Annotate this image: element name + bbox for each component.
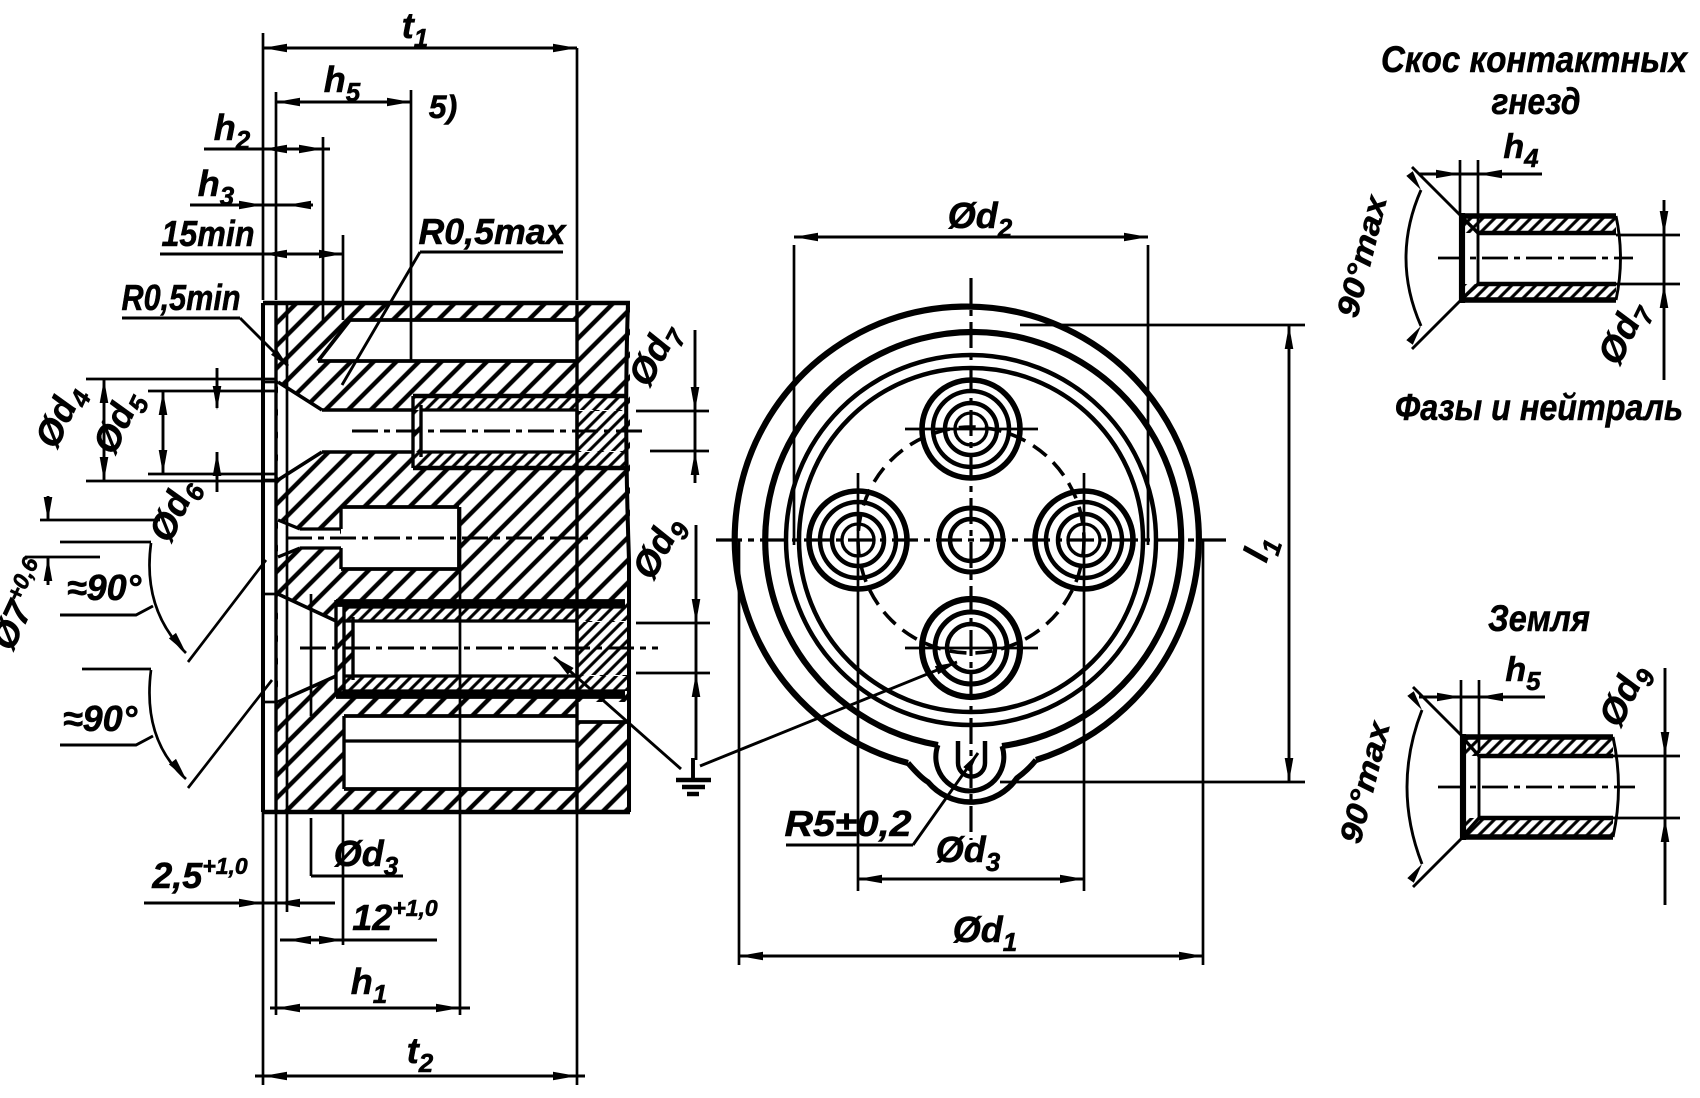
svg-text:гнезд: гнезд — [1492, 81, 1581, 122]
front view: top phase contact — [922, 380, 1020, 478]
label R0,5max with leader — [342, 211, 567, 385]
front view: bottom ground contact — [922, 599, 1020, 697]
section view: front flange white gap — [264, 303, 276, 812]
detail 2: tube axis (dash-dot) — [1438, 786, 1635, 789]
front view: recess circle Ød2 — [786, 355, 1156, 725]
ground symbol with leaders — [554, 657, 957, 794]
section view: upper contact axis (dash-dot) — [352, 430, 648, 433]
dimension t2 — [255, 812, 585, 1085]
section view: ground contact axis (dash-dot) — [300, 647, 658, 650]
label R0,5min with leader — [122, 277, 289, 366]
dimension h1 — [270, 507, 470, 1015]
detail 1: tube axis (dash-dot) — [1438, 257, 1633, 260]
section view: ground funnel + bore (white) — [278, 594, 336, 702]
section view: upper cavity (white) — [318, 321, 577, 361]
svg-text:5): 5) — [429, 89, 457, 125]
dimension h2 — [204, 107, 330, 320]
section view: center hole funnel (white) — [278, 520, 340, 557]
svg-text:Фазы и нейтраль: Фазы и нейтраль — [1395, 387, 1683, 428]
section view: upper countersink cone outline — [263, 382, 413, 480]
section view: center contact cavity (white) — [341, 507, 459, 569]
section view: upper sleeve walls (dense hatch) — [413, 396, 628, 468]
front view: contact pitch circle Ød3 (dashed) — [858, 427, 1084, 653]
dimension Ød1 (front) — [739, 540, 1203, 965]
front view: top contact horizontal axis — [905, 428, 1038, 431]
front view: inner recess circle — [799, 368, 1143, 712]
section view: bottom cavity (white) — [344, 716, 577, 789]
dimension Ød7 (section) — [620, 315, 709, 483]
front view: bottom contact horizontal axis — [905, 647, 1038, 650]
detail 2: ground sleeve tube — [1463, 734, 1619, 840]
dimension Ød5 — [84, 383, 277, 474]
front view: left phase contact — [809, 491, 907, 589]
dimension 12+1,0 — [280, 812, 438, 945]
section view: connector body cross-section (hatched) — [277, 303, 630, 812]
dimension 15min — [160, 213, 343, 320]
section view: body outline — [263, 303, 630, 812]
section view: inner vertical line — [310, 594, 313, 716]
dimension 2,5+1,0 — [144, 812, 335, 912]
section view: upper contact sleeve (phase, Ød7) outline — [413, 396, 625, 468]
section view: ground contact sleeve (Ød9) outline — [263, 594, 625, 702]
detail 2 title — [1488, 598, 1590, 639]
section view: bottom cavity and right block outline — [344, 716, 630, 789]
dimension Ød2 (front) — [794, 195, 1148, 545]
front view: center pilot contact — [939, 508, 1003, 572]
svg-text:R0,5min: R0,5min — [122, 277, 241, 318]
svg-text:≈90°: ≈90° — [67, 567, 142, 608]
label Ød3 (section) with leader — [311, 818, 403, 881]
dimension Ød9 (detail 2) — [1590, 656, 1680, 905]
dimension Ød9 (section) — [624, 509, 710, 760]
footnote 5) — [429, 89, 457, 125]
front view: keyway notch — [958, 741, 985, 777]
angle callout ~90deg lower — [60, 669, 272, 788]
detail 1 caption — [1395, 387, 1683, 428]
detail 1: phase sleeve tube — [1462, 213, 1621, 303]
dimension h3 — [190, 163, 313, 211]
detail 2: 90deg max chamfer callout — [1333, 687, 1463, 887]
dimension l1 (front) — [1000, 325, 1305, 782]
svg-text:≈90°: ≈90° — [63, 698, 138, 739]
section view: center contact axis (dash-dot) — [286, 537, 592, 540]
svg-text:R0,5max: R0,5max — [419, 211, 568, 252]
front view: vertical center line — [969, 278, 972, 840]
svg-text:Скос контактных: Скос контактных — [1381, 39, 1688, 80]
svg-text:15min: 15min — [162, 213, 255, 254]
section view: upper cavity outline — [318, 303, 577, 812]
dimension Ød7 (detail 1) — [1589, 200, 1680, 380]
dimension Ød3 (front) — [858, 473, 1084, 891]
section view: upper contact funnel + bore (white) — [278, 382, 413, 480]
dimension Ød4 — [26, 377, 277, 481]
label R5±0,2 with leader — [785, 753, 979, 845]
dimension h4 — [1419, 128, 1542, 231]
dimension Ø7+0,6 — [0, 496, 160, 656]
detail 1 title — [1381, 39, 1688, 122]
svg-text:R5±0,2: R5±0,2 — [785, 803, 912, 844]
dimension Ød6 — [140, 368, 221, 551]
dimension h5 (detail 2) — [1419, 651, 1545, 753]
section view: upper sleeve bore (white) — [421, 411, 577, 451]
section view: ground sleeve bore (white) — [353, 622, 577, 675]
detail 1: 90deg max chamfer callout — [1330, 167, 1462, 349]
front view: outer circle Ød1 (with keyway bump) — [735, 307, 1199, 803]
section view: step above bottom-right block (white) — [578, 702, 631, 722]
section view: ground sleeve walls (dense hatch) — [344, 607, 628, 691]
angle callout ~90deg upper — [60, 542, 266, 662]
svg-text:Земля: Земля — [1488, 598, 1590, 639]
front view: second circle (with keyway bump) — [765, 332, 1181, 791]
dimension t1 — [263, 5, 577, 300]
section view: center contact cavity outline — [278, 507, 459, 569]
front view: right phase contact — [1035, 491, 1133, 589]
dimension h5 — [276, 59, 411, 361]
front view: horizontal center line — [716, 538, 1228, 541]
